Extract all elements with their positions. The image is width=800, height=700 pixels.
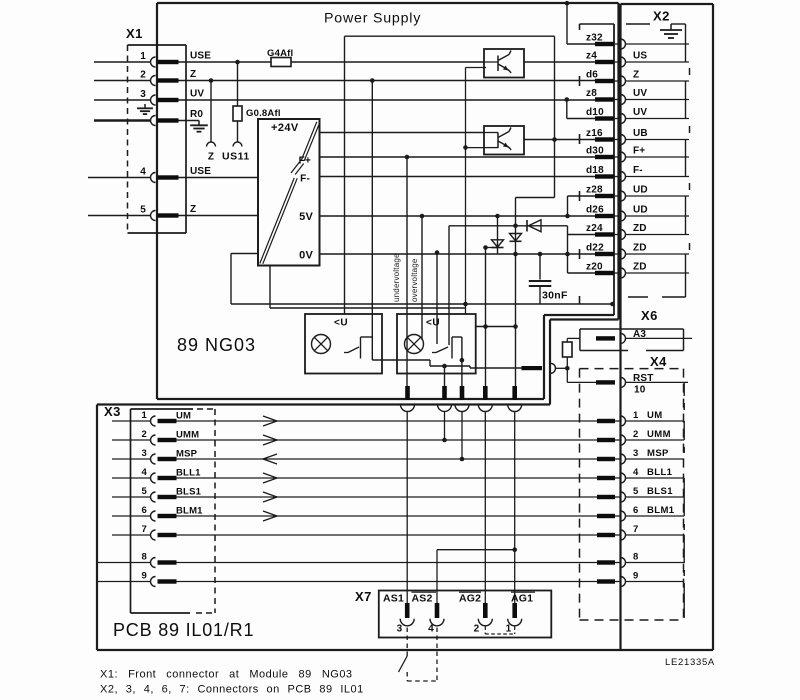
svg-text:BLM1: BLM1 [176,506,203,517]
svg-text:5: 5 [140,205,146,216]
svg-text:RST: RST [633,373,654,384]
svg-text:89 NG03: 89 NG03 [177,335,256,355]
svg-text:LE21335A: LE21335A [665,657,715,668]
svg-text:PCB 89 IL01/R1: PCB 89 IL01/R1 [113,620,254,640]
svg-text:A3: A3 [633,329,646,340]
svg-text:1: 1 [633,410,639,421]
svg-text:BLL1: BLL1 [176,468,201,479]
svg-text:10: 10 [634,385,646,396]
svg-text:BLL1: BLL1 [647,467,673,478]
svg-text:1: 1 [142,410,148,421]
svg-text:ZD: ZD [633,223,647,234]
svg-text:AG2: AG2 [459,593,481,605]
svg-text:d6: d6 [586,70,598,81]
svg-text:USE: USE [190,51,211,62]
svg-text:<U: <U [334,318,348,329]
svg-text:AS2: AS2 [412,593,433,605]
svg-text:z4: z4 [586,51,597,62]
svg-text:UV: UV [633,107,647,118]
svg-text:UB: UB [633,128,648,139]
svg-text:z16: z16 [586,128,603,139]
svg-text:<U: <U [426,318,440,329]
svg-text:BLS1: BLS1 [176,487,202,498]
svg-text:R0: R0 [190,109,203,120]
svg-text:UV: UV [190,89,204,100]
svg-text:X2: X2 [653,9,670,24]
svg-text:1: 1 [506,624,512,635]
svg-text:UM: UM [176,411,191,422]
svg-text:3: 3 [142,448,147,459]
svg-text:1: 1 [140,51,146,62]
svg-text:X1: Front connector at Module: X1: Front connector at Module 89 NG03 [100,669,353,681]
svg-text:4: 4 [140,167,146,178]
svg-text:Z: Z [208,152,214,163]
svg-text:UMM: UMM [647,429,671,440]
svg-text:BLS1: BLS1 [647,486,673,497]
svg-text:4: 4 [142,467,148,478]
svg-text:6: 6 [633,505,638,516]
svg-text:4: 4 [428,624,434,635]
svg-text:ZD: ZD [633,243,647,254]
svg-text:Power Supply: Power Supply [324,11,421,27]
svg-text:UD: UD [633,205,648,216]
svg-text:z20: z20 [586,262,603,273]
svg-text:z32: z32 [586,33,603,44]
svg-text:MSP: MSP [176,449,198,460]
svg-text:UM: UM [647,410,663,421]
svg-text:z8: z8 [586,88,597,99]
svg-text:5V: 5V [299,211,313,223]
svg-text:2: 2 [474,624,480,635]
svg-text:UV: UV [633,88,647,99]
svg-text:7: 7 [142,524,147,535]
svg-text:7: 7 [633,524,638,535]
svg-text:X7: X7 [355,589,372,604]
svg-text:USE: USE [190,166,211,177]
svg-text:F-: F- [300,174,310,185]
svg-text:F+: F+ [633,146,645,157]
svg-text:UMM: UMM [176,430,199,441]
svg-text:G0.8Afl: G0.8Afl [246,108,281,119]
svg-text:d18: d18 [586,165,604,176]
svg-text:2: 2 [140,70,146,81]
svg-text:X1: X1 [126,26,143,41]
svg-text:+24V: +24V [271,122,299,134]
svg-text:X6: X6 [641,308,658,323]
svg-text:5: 5 [633,486,639,497]
svg-text:d30: d30 [586,146,604,157]
svg-text:3: 3 [140,89,146,100]
svg-text:6: 6 [142,505,147,516]
svg-text:30nF: 30nF [542,290,568,302]
svg-text:X3: X3 [104,404,121,419]
svg-text:8: 8 [633,552,638,563]
svg-text:F+: F+ [299,156,311,167]
svg-text:2: 2 [633,429,638,440]
svg-text:AG1: AG1 [511,593,533,605]
svg-text:8: 8 [142,552,147,563]
svg-text:F-: F- [633,165,643,176]
svg-text:X2, 3, 4, 6, 7: Connectors on: X2, 3, 4, 6, 7: Connectors on PCB 89 IL0… [100,684,364,696]
svg-text:z24: z24 [586,223,603,234]
svg-text:d10: d10 [586,107,604,118]
svg-text:0V: 0V [299,250,313,262]
svg-text:ZD: ZD [633,262,647,273]
svg-text:X4: X4 [650,354,667,369]
svg-text:9: 9 [633,571,638,582]
svg-text:2: 2 [142,429,147,440]
svg-text:G4Afl: G4Afl [267,48,293,59]
svg-text:US11: US11 [222,151,250,163]
svg-text:9: 9 [142,571,147,582]
svg-text:UD: UD [633,185,648,196]
svg-text:Z: Z [633,70,639,81]
svg-text:d26: d26 [586,205,604,216]
svg-text:3: 3 [397,624,403,635]
svg-text:AS1: AS1 [383,593,404,605]
svg-text:BLM1: BLM1 [647,505,675,516]
svg-text:overvoltage: overvoltage [410,258,419,302]
svg-text:Z: Z [190,204,196,215]
svg-text:4: 4 [633,467,639,478]
svg-text:5: 5 [142,486,148,497]
svg-text:MSP: MSP [647,448,669,459]
svg-text:z28: z28 [586,185,603,196]
svg-text:3: 3 [633,448,638,459]
svg-text:undervoltage: undervoltage [392,253,401,302]
svg-text:Z: Z [190,69,196,80]
svg-text:US: US [633,51,647,62]
svg-text:d22: d22 [586,243,604,254]
